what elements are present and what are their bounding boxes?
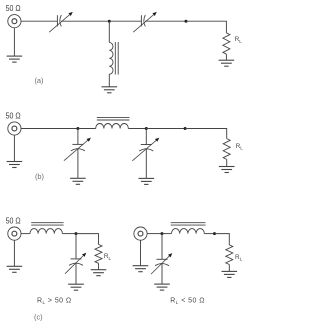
wire: RL to ground (c left)	[98, 263, 100, 269]
wire: node C down to C3	[77, 129, 79, 145]
core of L1	[115, 42, 118, 75]
signal source V4 (c right)	[134, 227, 147, 240]
wire: C2 to node B	[145, 20, 186, 22]
wire: node G to L4	[162, 233, 172, 235]
core of L2	[97, 118, 130, 120]
svg-text:RL: RL	[236, 143, 244, 151]
wire: V3 to L3	[21, 233, 30, 235]
ground under RL (b)	[219, 167, 235, 173]
wire: RL to ground (b)	[226, 159, 228, 166]
wire: node H to RL (c right)	[215, 234, 230, 245]
variable capacitor C6 (shunt, c right)	[151, 253, 172, 274]
variable capacitor C1 (series)	[49, 12, 73, 32]
ground under C4	[139, 178, 155, 184]
wire: node C to L2	[78, 128, 96, 130]
wire: node B to RL (a)	[186, 21, 226, 33]
inductor L4 (series, c right)	[172, 229, 205, 234]
wire: RL to ground (a)	[225, 54, 227, 60]
wire: V1 to C1	[21, 20, 57, 22]
signal source V3 (c left)	[8, 227, 21, 240]
ground under C3	[70, 178, 86, 184]
inductor L3 (series, c left)	[30, 229, 62, 234]
svg-text:RL > 50 Ω: RL > 50 Ω	[37, 297, 72, 304]
svg-text:RL: RL	[235, 254, 243, 262]
variable capacitor C3 (shunt input)	[64, 138, 91, 161]
wire: node A down to L1	[108, 21, 110, 42]
wire: node E to RL (b)	[185, 129, 227, 139]
node H junction	[213, 232, 216, 235]
wire: V1 to ground	[13, 28, 15, 56]
svg-text:50 Ω: 50 Ω	[6, 4, 21, 13]
wire: V3 to ground	[13, 240, 15, 266]
svg-text:RL < 50 Ω: RL < 50 Ω	[170, 297, 205, 304]
node D junction	[145, 127, 148, 130]
ground under V3	[7, 266, 23, 272]
wire: C3 to ground	[77, 149, 79, 179]
wire: L1 to ground	[108, 74, 110, 87]
variable capacitor C5 (shunt, c left)	[65, 253, 86, 274]
core of L3	[31, 223, 63, 225]
signal source V1 (a)	[8, 15, 21, 28]
node C junction	[76, 127, 79, 130]
wire: L4 to node H	[204, 233, 214, 235]
wire: V4 to node G	[147, 233, 162, 235]
resistor RL (b)	[223, 139, 230, 160]
svg-text:(a): (a)	[34, 76, 43, 85]
node B junction	[185, 20, 188, 23]
resistor RL (a)	[223, 33, 230, 54]
svg-text:50 Ω: 50 Ω	[6, 111, 21, 120]
ground under C6	[154, 284, 170, 290]
wire: C4 to ground	[145, 149, 147, 179]
node G junction	[161, 232, 164, 235]
wire: L2 to node D	[128, 128, 146, 130]
wire: V4 to ground	[140, 240, 142, 266]
wire: C6 to ground	[161, 264, 163, 284]
wire: V2 to ground	[13, 135, 15, 161]
wire: node F to RL (c left)	[76, 234, 99, 245]
resistor RL (c right)	[226, 245, 233, 265]
ground under C5	[68, 284, 84, 290]
node E junction	[184, 127, 187, 130]
ground under RL (c right)	[222, 271, 238, 277]
ground under L1	[102, 87, 118, 93]
node F junction	[75, 232, 78, 235]
wire: L3 to node F	[62, 233, 76, 235]
variable capacitor C4 (shunt output)	[132, 138, 159, 161]
ground under V4	[133, 266, 149, 272]
wire: node F down to C5	[75, 234, 77, 259]
node A junction	[108, 20, 111, 23]
wire: node A to C2	[109, 20, 141, 22]
wire: node G down to C6	[161, 234, 163, 260]
signal source V2 (b)	[8, 122, 21, 135]
resistor RL (c left)	[95, 244, 102, 263]
wire: V2 to node C	[21, 128, 78, 130]
svg-text:RL: RL	[104, 253, 112, 261]
svg-text:RL: RL	[235, 36, 243, 44]
wire: node D down to C4	[145, 129, 147, 145]
wire: C1 to node A	[61, 20, 109, 22]
variable capacitor C2 (series)	[133, 12, 157, 32]
ground under RL (a)	[219, 60, 235, 66]
wire: RL to ground (c right)	[228, 265, 230, 272]
core of L4	[171, 223, 206, 225]
ground under RL (c left)	[91, 270, 107, 276]
svg-text:(c): (c)	[34, 313, 43, 322]
inductor L2 (series)	[96, 124, 129, 129]
inductor L1 (shunt)	[109, 42, 113, 74]
wire: node D to node E	[146, 128, 185, 130]
ground under V2	[7, 162, 23, 168]
wire: C5 to ground	[75, 263, 77, 284]
ground under V1	[7, 56, 23, 62]
svg-text:(b): (b)	[35, 172, 44, 181]
svg-text:50 Ω: 50 Ω	[6, 217, 21, 226]
